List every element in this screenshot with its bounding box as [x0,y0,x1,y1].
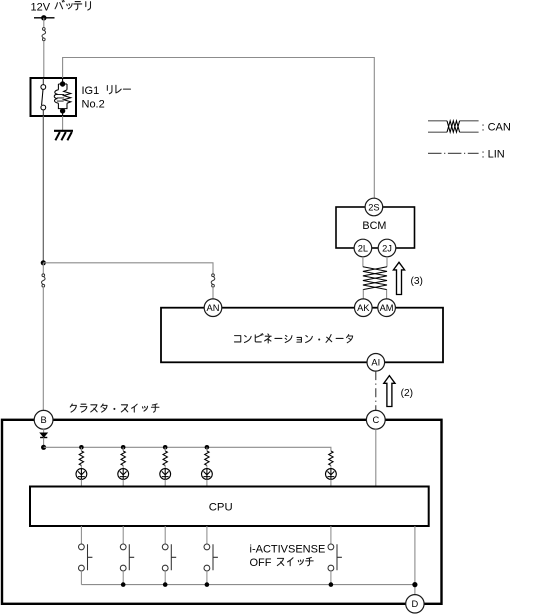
wire coil to AN [212,287,214,299]
node rail branch 2 [121,445,126,450]
wire lamp 3 to CPU [164,479,166,486]
wire rail to resistor 2 [122,447,124,451]
wire C to CPU [375,429,377,486]
wire CPU to switch 4 [206,526,208,544]
svg-text:(3): (3) [411,276,423,287]
wire rail to resistor 3 [164,447,166,451]
wire resistor to lamp 3 [164,465,166,468]
arrow (2) [384,376,413,407]
svg-text:: LIN: : LIN [482,149,505,161]
svg-text:BCM: BCM [362,220,386,232]
svg-text:2L: 2L [358,243,368,253]
node ground rail to D [412,582,417,587]
wire fuse to relay [43,41,45,78]
CPU box [30,487,429,527]
wire diode to rail node [43,438,45,448]
coil symbol in cluster switch feed [42,274,46,287]
wire battery to fuse [43,18,45,28]
wire node to AN [43,263,213,274]
svg-text:2S: 2S [368,202,379,212]
wire resistor to lamp 1 [80,465,82,468]
label: cluster switch (katakana) [70,404,159,412]
connector AM [378,299,396,317]
connector AK [355,299,373,317]
label: i-ACTIVSENSE OFF switch [250,544,326,570]
BCM box [336,207,415,248]
resistor R5 [329,451,333,466]
connector 2S [365,198,383,216]
svg-text:AM: AM [380,303,394,313]
wire relay coil to ground [62,116,64,131]
ground [54,131,73,141]
combination meter box [161,308,443,363]
wire lamp 2 to CPU [122,479,124,486]
wire CPU to switch 1 [80,526,82,544]
wire lamp 5 to CPU [330,479,332,486]
wire switch 5 to ground rail [330,571,332,585]
wire resistor to lamp 5 [330,465,332,468]
push switch SW3 [162,544,176,571]
svg-text:(2): (2) [401,388,413,399]
push switch SW4 [204,544,218,571]
svg-text:2J: 2J [382,243,392,253]
wire switch 3 to ground rail [164,571,166,585]
resistor R3 [163,451,167,466]
diode D1 [40,433,47,438]
wire node to coil symbol [42,263,44,274]
wire rail to resistor 1 [80,447,82,451]
svg-text:C: C [372,415,379,425]
relay switch contact [41,78,46,116]
wire CPU to switch 3 [164,526,166,544]
wire switch 1 to ground rail [80,571,82,585]
resistor R1 [79,451,83,466]
battery positive node [34,15,55,20]
push switch SW1 [79,544,93,571]
svg-text:: CAN: : CAN [482,121,511,133]
coil symbol in AN branch [211,274,215,287]
svg-text:AK: AK [357,303,370,313]
wire CPU to D [414,526,416,595]
label: 12V battery [31,0,91,13]
wire lamp 1 to CPU [80,479,82,486]
label: IG1 relay No.2 [82,85,131,110]
wire B to diode [43,429,45,433]
CAN twisted pair 2L/2J to AK/AM [363,257,387,299]
connector 2L [354,239,372,257]
wire CPU to switch 2 [122,526,124,544]
cluster switch box [2,420,442,604]
svg-text:12V: 12V [31,2,51,14]
wire relay switch down to node A [42,116,44,263]
resistor R4 [205,451,209,466]
switch ground rail [81,584,415,586]
push switch SW5 [328,544,342,571]
legend CAN twisted pair symbol [428,121,479,132]
connector AN [204,299,222,317]
relay IG1 No.2 box [31,78,77,116]
connector D [406,595,424,613]
connector AI [367,354,385,372]
relay coil [54,78,71,116]
svg-text:AI: AI [371,358,380,368]
wire rail to resistor 4 [206,447,208,451]
wire resistor to lamp 2 [122,465,124,468]
svg-text:D: D [412,599,419,609]
wire lamp 4 to CPU [206,479,208,486]
svg-text:No.2: No.2 [82,98,105,110]
connector B [34,410,53,429]
indicator lamp LED3 [160,469,171,480]
indicator lamp LED5 [326,469,337,480]
node rail branch 3 [163,445,168,450]
svg-text:i-ACTIVSENSE: i-ACTIVSENSE [250,544,326,556]
resistor R2 [121,451,125,466]
node ground rail x206 [205,582,210,587]
node ground rail x165 [163,582,168,587]
wire CPU to switch 5 [330,526,332,544]
wire switch 4 to ground rail [206,571,208,585]
fuse (coil symbol) in battery feed [42,28,46,41]
indicator lamp LED1 [76,469,87,480]
label: combination meter (katakana) [234,334,352,343]
LIN wire AI to C (dash-dot) [375,371,377,410]
indicator lamp LED4 [202,469,213,480]
node ground rail x123 [121,582,126,587]
svg-text:CPU: CPU [209,502,233,514]
svg-text:IG1: IG1 [82,85,100,97]
connector C [366,410,385,429]
push switch SW2 [120,544,134,571]
node ground rail x330 [329,582,334,587]
arrow (3) [393,262,423,294]
wire to connector B [42,287,44,411]
svg-text:AN: AN [207,303,220,313]
svg-text:B: B [40,415,46,425]
node rail branch 4 [205,445,210,450]
indicator lamp LED2 [118,469,129,480]
node rail branch 1 [79,445,84,450]
node rail junction [41,445,46,450]
lamp supply rail [44,447,331,451]
wire relay coil supply to BCM 2S [63,58,375,199]
wire switch 2 to ground rail [122,571,124,585]
wire resistor to lamp 4 [206,465,208,468]
node: junction to AN branch [41,260,46,265]
connector 2J [378,239,396,257]
legend LIN line [428,152,479,154]
svg-text:OFF: OFF [250,557,272,569]
